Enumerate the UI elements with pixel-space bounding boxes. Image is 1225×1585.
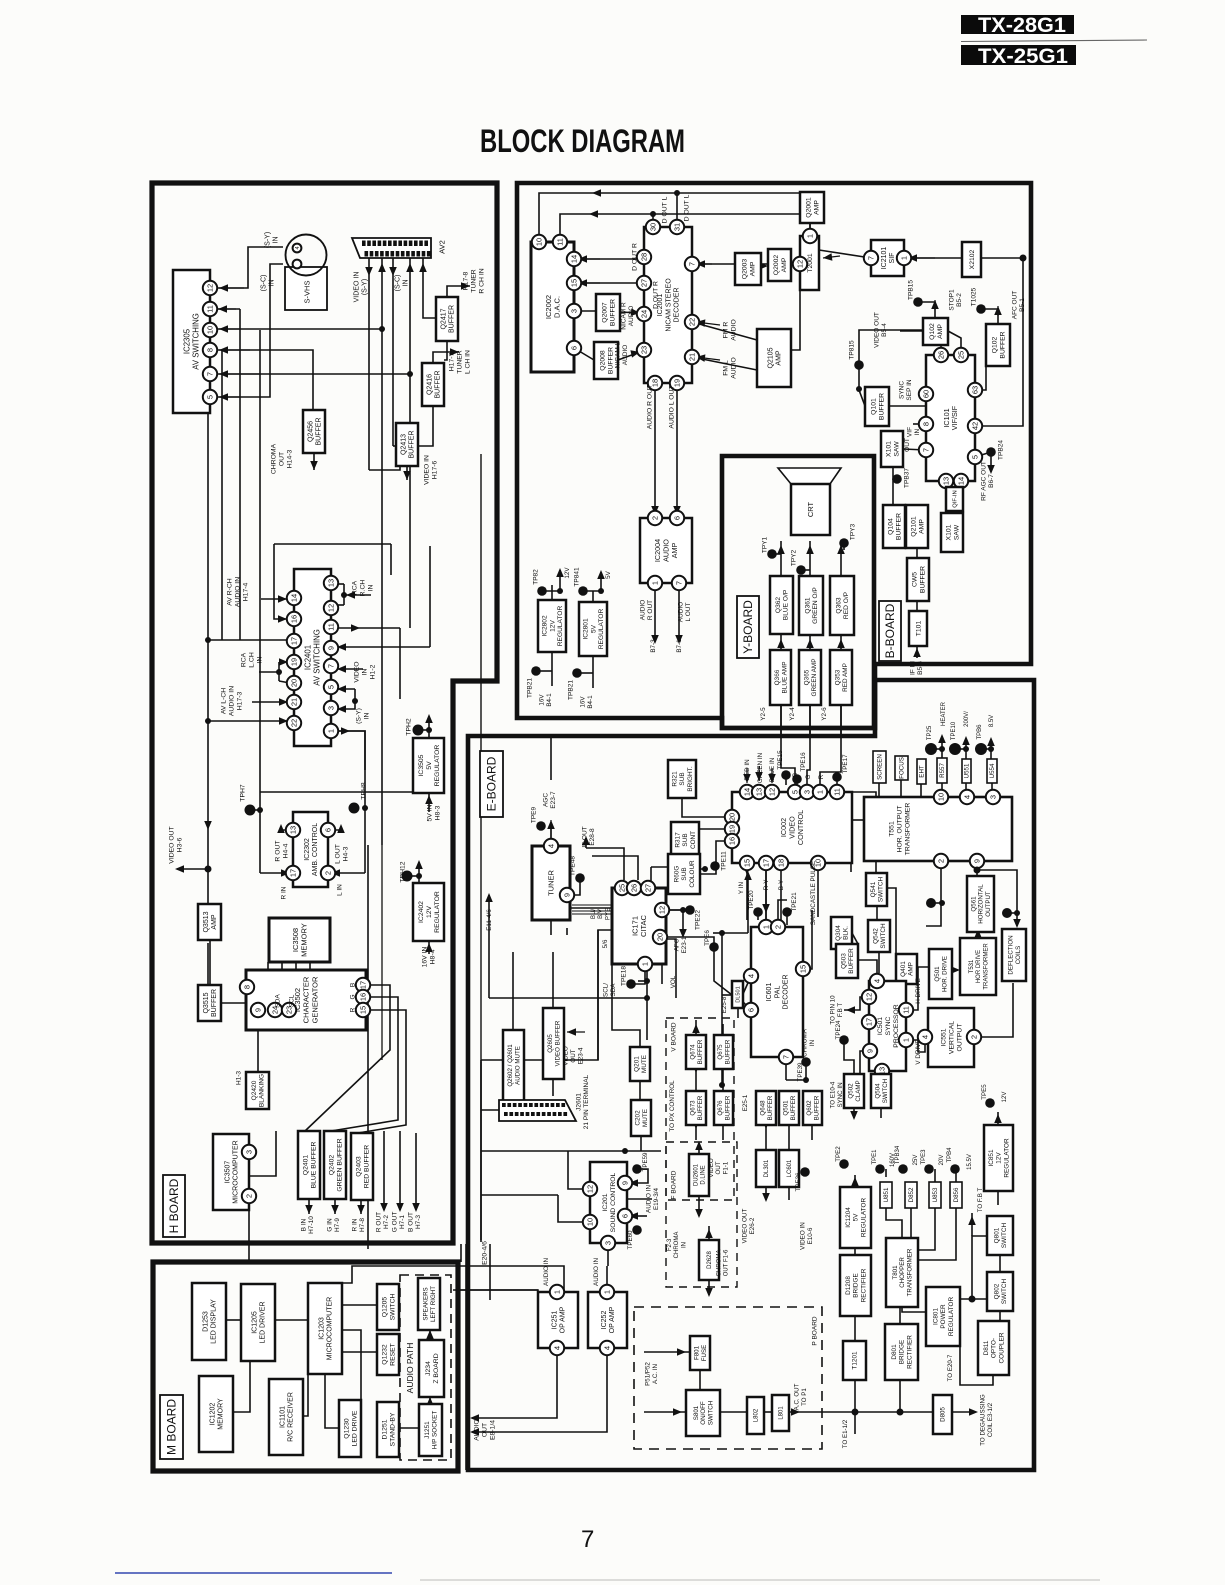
svg-text:BUFFER: BUFFER — [813, 1095, 820, 1120]
svg-text:B6-7: B6-7 — [988, 474, 995, 488]
svg-text:9: 9 — [563, 893, 572, 897]
svg-text:BUFFER: BUFFER — [211, 989, 218, 1017]
svg-text:TO PX CONTROL: TO PX CONTROL — [669, 1080, 676, 1132]
svg-text:9: 9 — [973, 859, 982, 863]
svg-text:H7-8: H7-8 — [359, 1218, 366, 1232]
svg-text:L IN: L IN — [336, 884, 343, 896]
svg-text:TPE60: TPE60 — [627, 1230, 634, 1249]
svg-text:Q674: Q674 — [690, 1044, 697, 1060]
svg-text:IC601: IC601 — [766, 983, 773, 1002]
svg-text:12: 12 — [768, 788, 777, 796]
svg-text:BUFFER: BUFFER — [409, 431, 416, 459]
svg-text:AMP: AMP — [918, 519, 925, 534]
svg-text:TPE10: TPE10 — [951, 721, 957, 740]
svg-text:IN: IN — [367, 585, 374, 592]
svg-text:B5-2: B5-2 — [956, 293, 963, 307]
svg-text:B5-1: B5-1 — [1019, 298, 1026, 312]
svg-text:13: 13 — [942, 477, 951, 485]
svg-text:IC3507: IC3507 — [224, 1161, 231, 1184]
svg-text:20: 20 — [656, 933, 665, 941]
svg-text:Q2416: Q2416 — [426, 374, 433, 395]
svg-text:SOUND CONTROL: SOUND CONTROL — [610, 1172, 617, 1232]
svg-text:R IN: R IN — [351, 1218, 358, 1231]
svg-text:3: 3 — [604, 1241, 613, 1245]
svg-text:OUT: OUT — [715, 1161, 722, 1174]
svg-text:12V: 12V — [1002, 1092, 1008, 1103]
svg-text:1: 1 — [651, 581, 660, 585]
svg-text:16V: 16V — [539, 694, 546, 706]
svg-text:BUFFER: BUFFER — [449, 305, 456, 333]
svg-text:TPB37: TPB37 — [903, 468, 910, 488]
svg-text:PYE: PYE — [605, 908, 611, 920]
svg-text:(S-C): (S-C) — [260, 275, 267, 292]
svg-text:Y2-6: Y2-6 — [821, 707, 828, 721]
svg-text:10: 10 — [206, 326, 215, 334]
svg-text:D2628: D2628 — [707, 1251, 713, 1269]
svg-text:AUDIO: AUDIO — [730, 319, 737, 341]
svg-text:7: 7 — [867, 256, 876, 260]
svg-text:CHROMA: CHROMA — [717, 1250, 723, 1277]
svg-text:1: 1 — [327, 729, 336, 733]
svg-text:U851: U851 — [883, 1187, 890, 1202]
svg-text:TP82: TP82 — [532, 569, 539, 585]
svg-text:DEFLECTION: DEFLECTION — [1008, 935, 1015, 974]
svg-text:AUDIO: AUDIO — [677, 602, 684, 623]
svg-text:Q561: Q561 — [970, 896, 977, 912]
svg-text:B/V: B/V — [598, 909, 604, 919]
svg-text:H3-6: H3-6 — [176, 837, 183, 852]
svg-text:Q676: Q676 — [717, 1100, 724, 1116]
svg-text:Q2002: Q2002 — [773, 255, 780, 276]
svg-text:LED DRIVE: LED DRIVE — [351, 1410, 358, 1446]
svg-text:BUFFER: BUFFER — [724, 1039, 731, 1064]
svg-text:12: 12 — [327, 604, 336, 612]
svg-text:TPE36: TPE36 — [795, 1172, 802, 1191]
svg-text:RECTIFIER: RECTIFIER — [860, 1268, 867, 1302]
svg-text:28: 28 — [640, 253, 649, 261]
svg-text:Q353: Q353 — [834, 669, 841, 685]
svg-text:SYNC: SYNC — [885, 1016, 892, 1035]
svg-text:GREEN AMP: GREEN AMP — [811, 659, 818, 697]
svg-text:Q2001: Q2001 — [805, 197, 812, 218]
svg-text:IC2302: IC2302 — [304, 838, 311, 861]
svg-text:7: 7 — [688, 262, 697, 266]
svg-text:F1-1: F1-1 — [723, 1161, 730, 1174]
svg-text:X2102: X2102 — [969, 249, 976, 269]
svg-text:TRANSFORMER: TRANSFORMER — [983, 943, 989, 990]
svg-text:R557: R557 — [939, 763, 946, 778]
svg-text:OUT: OUT — [570, 1049, 577, 1062]
svg-text:L.CH: L.CH — [248, 652, 255, 668]
svg-text:SCL/: SCL/ — [603, 983, 610, 997]
svg-text:BLUE IN: BLUE IN — [769, 757, 776, 782]
svg-text:TPE9: TPE9 — [530, 806, 537, 823]
svg-text:H17-8: H17-8 — [462, 272, 469, 291]
svg-text:13: 13 — [289, 826, 298, 834]
svg-text:IC2802: IC2802 — [542, 615, 549, 637]
svg-text:B5-4: B5-4 — [881, 323, 888, 337]
svg-text:B-BOARD: B-BOARD — [883, 603, 897, 658]
svg-text:T101: T101 — [915, 621, 922, 637]
svg-text:20: 20 — [290, 679, 299, 687]
svg-text:CHROMA: CHROMA — [674, 1232, 680, 1259]
svg-text:TPE24: TPE24 — [835, 1020, 842, 1039]
svg-text:7: 7 — [581, 1526, 594, 1553]
svg-text:6: 6 — [621, 1214, 630, 1218]
svg-text:TP841: TP841 — [573, 567, 580, 587]
svg-text:12V: 12V — [564, 567, 571, 579]
svg-text:Q3515: Q3515 — [203, 992, 210, 1013]
svg-text:Q104: Q104 — [887, 518, 894, 535]
svg-text:MUTE: MUTE — [641, 1055, 648, 1073]
svg-text:X101: X101 — [945, 524, 952, 540]
svg-text:9: 9 — [621, 1181, 630, 1185]
svg-text:TRANSFORMER: TRANSFORMER — [907, 1248, 914, 1296]
svg-text:DECODER: DECODER — [674, 287, 681, 322]
svg-text:C202: C202 — [634, 1110, 641, 1126]
svg-text:24: 24 — [640, 310, 649, 318]
svg-text:TPE21: TPE21 — [791, 892, 798, 912]
svg-text:L OUT: L OUT — [685, 603, 692, 622]
svg-text:CHOPPER: CHOPPER — [899, 1257, 906, 1288]
svg-text:IC1101: IC1101 — [279, 1406, 286, 1428]
svg-text:T1025: T1025 — [970, 287, 977, 306]
svg-text:4: 4 — [747, 974, 756, 978]
svg-text:B: B — [792, 773, 799, 777]
svg-text:GREEN BUFFER: GREEN BUFFER — [336, 1138, 343, 1191]
svg-text:H1-2: H1-2 — [369, 664, 376, 679]
svg-text:18: 18 — [777, 859, 786, 867]
svg-text:DL301: DL301 — [764, 1159, 770, 1177]
svg-text:B: B — [349, 983, 356, 987]
svg-text:BUFFER: BUFFER — [790, 1095, 797, 1120]
svg-text:J1251: J1251 — [424, 1421, 431, 1439]
svg-text:A.C. OUT: A.C. OUT — [794, 1383, 801, 1410]
svg-text:VIDEO IN: VIDEO IN — [353, 272, 360, 303]
svg-text:BUFFER: BUFFER — [895, 513, 902, 540]
svg-text:26: 26 — [630, 884, 639, 892]
svg-text:R-Y: R-Y — [763, 879, 770, 891]
svg-text:IN: IN — [363, 713, 370, 720]
svg-text:6: 6 — [673, 516, 682, 520]
svg-text:SIF: SIF — [889, 253, 896, 264]
svg-text:9: 9 — [327, 646, 336, 650]
svg-text:CHROMA: CHROMA — [270, 443, 277, 474]
svg-text:Q2007: Q2007 — [601, 302, 608, 323]
svg-text:15: 15 — [359, 1006, 368, 1014]
svg-text:F BOARD: F BOARD — [670, 1170, 677, 1199]
svg-text:12: 12 — [586, 1185, 595, 1193]
svg-text:TP25: TP25 — [927, 725, 933, 740]
svg-text:SDA: SDA — [274, 994, 281, 1008]
svg-text:17: 17 — [290, 637, 299, 645]
svg-text:FUSE: FUSE — [701, 1345, 708, 1362]
svg-text:IN: IN — [914, 428, 921, 435]
svg-text:15.5V: 15.5V — [967, 1154, 973, 1170]
svg-text:MEMORY: MEMORY — [218, 1398, 225, 1430]
svg-text:R IN: R IN — [280, 886, 287, 899]
svg-text:BUFFER: BUFFER — [767, 1095, 774, 1120]
svg-text:POWER: POWER — [940, 1304, 947, 1329]
svg-text:F801: F801 — [694, 1345, 701, 1360]
svg-text:BUFFER: BUFFER — [316, 418, 323, 446]
svg-text:NICAM L: NICAM L — [614, 341, 621, 368]
svg-text:OPTO-: OPTO- — [991, 1338, 998, 1358]
svg-text:Q102: Q102 — [929, 323, 936, 340]
svg-text:7: 7 — [327, 664, 336, 668]
svg-text:E23-7: E23-7 — [550, 791, 557, 809]
svg-text:GREEN O/P: GREEN O/P — [812, 587, 819, 624]
svg-text:IC551: IC551 — [940, 1028, 947, 1046]
svg-text:MEMORY: MEMORY — [300, 923, 309, 957]
svg-text:OUT F1-6: OUT F1-6 — [724, 1249, 730, 1276]
svg-text:IC501: IC501 — [877, 1017, 884, 1035]
svg-text:Q501: Q501 — [783, 1100, 790, 1116]
svg-text:5: 5 — [327, 685, 336, 689]
svg-text:TUNER: TUNER — [456, 350, 463, 374]
svg-text:B IN: B IN — [300, 1218, 307, 1231]
svg-text:Q502: Q502 — [848, 1083, 855, 1099]
svg-text:REGULATOR: REGULATOR — [948, 1297, 955, 1337]
svg-text:TPB21: TPB21 — [567, 680, 574, 700]
svg-text:SYNC IN: SYNC IN — [837, 1082, 844, 1107]
svg-text:Q3513: Q3513 — [203, 911, 210, 932]
svg-text:T551: T551 — [888, 821, 895, 837]
svg-text:R.CH: R.CH — [359, 580, 366, 597]
svg-text:SAW: SAW — [953, 524, 960, 540]
svg-text:BLUE AMP: BLUE AMP — [782, 662, 789, 694]
svg-text:IC201: IC201 — [602, 1193, 609, 1211]
svg-text:H7-1: H7-1 — [399, 1215, 406, 1229]
svg-text:U554: U554 — [989, 763, 996, 778]
svg-text:AUDIO IN: AUDIO IN — [646, 1185, 653, 1213]
svg-text:3: 3 — [327, 706, 336, 710]
svg-text:11: 11 — [556, 238, 565, 246]
svg-text:31: 31 — [673, 223, 682, 231]
svg-text:Q802: Q802 — [993, 1283, 1000, 1299]
svg-text:G: G — [805, 774, 812, 779]
svg-text:CHARACTER: CHARACTER — [302, 976, 311, 1023]
svg-text:4: 4 — [963, 795, 972, 799]
svg-text:H14-3: H14-3 — [286, 450, 293, 469]
svg-text:E25-8: E25-8 — [721, 996, 728, 1013]
svg-text:TX-25G1: TX-25G1 — [978, 44, 1068, 68]
svg-text:Q675: Q675 — [717, 1044, 724, 1060]
svg-text:10: 10 — [937, 793, 946, 801]
svg-text:17: 17 — [359, 981, 368, 989]
svg-text:TPE48: TPE48 — [569, 856, 576, 876]
svg-text:IF OUT: IF OUT — [581, 826, 588, 847]
svg-text:TPE17: TPE17 — [842, 754, 849, 774]
svg-text:COILS: COILS — [1015, 946, 1022, 965]
svg-text:21: 21 — [688, 353, 697, 361]
svg-text:D805: D805 — [940, 1407, 947, 1422]
svg-text:22: 22 — [688, 318, 697, 326]
svg-text:IC2101: IC2101 — [881, 247, 888, 270]
svg-text:22: 22 — [290, 719, 299, 727]
svg-text:42: 42 — [971, 422, 980, 430]
svg-text:H4-4: H4-4 — [282, 843, 289, 858]
svg-text:D OUT R: D OUT R — [652, 281, 659, 309]
svg-text:B5-6: B5-6 — [917, 661, 924, 675]
svg-text:H17-6: H17-6 — [431, 461, 438, 480]
svg-text:20V: 20V — [939, 1155, 945, 1166]
svg-text:16: 16 — [359, 993, 368, 1001]
svg-text:TPE39: TPE39 — [797, 1062, 804, 1081]
svg-text:L802: L802 — [754, 1408, 760, 1422]
svg-text:BLANKING: BLANKING — [259, 1074, 266, 1107]
svg-text:21: 21 — [290, 698, 299, 706]
svg-text:TO E1-1/2: TO E1-1/2 — [842, 1419, 849, 1448]
svg-text:5V IN: 5V IN — [426, 804, 433, 821]
svg-text:H8-3: H8-3 — [434, 805, 441, 820]
svg-text:5V: 5V — [853, 1213, 860, 1222]
svg-text:11: 11 — [327, 623, 336, 631]
svg-text:SWITCH: SWITCH — [878, 877, 885, 903]
svg-text:AMP: AMP — [908, 962, 915, 976]
svg-text:7: 7 — [206, 372, 215, 376]
svg-text:E10-6: E10-6 — [807, 1227, 814, 1244]
svg-text:1: 1 — [900, 256, 909, 260]
svg-text:IC3505: IC3505 — [418, 754, 425, 776]
svg-text:2: 2 — [774, 925, 783, 929]
svg-text:EHT: EHT — [919, 765, 926, 778]
svg-text:IN: IN — [681, 1242, 687, 1248]
svg-text:TO E10-4: TO E10-4 — [830, 1081, 837, 1108]
svg-text:VIF/SIF: VIF/SIF — [950, 405, 959, 430]
svg-text:P BOARD: P BOARD — [811, 1316, 818, 1345]
svg-text:AMP: AMP — [749, 261, 756, 276]
svg-text:BU/: BU/ — [591, 909, 597, 919]
svg-text:VIDEO OUT: VIDEO OUT — [873, 312, 880, 348]
svg-text:TPY2: TPY2 — [790, 549, 797, 566]
svg-text:AV SWITCHING: AV SWITCHING — [313, 629, 322, 686]
svg-text:VIDEO OUT: VIDEO OUT — [168, 826, 175, 863]
svg-text:60: 60 — [922, 390, 931, 398]
svg-text:D811: D811 — [983, 1340, 990, 1355]
svg-text:AUDIO: AUDIO — [639, 600, 646, 621]
svg-text:5: 5 — [206, 395, 215, 399]
svg-text:TPE1: TPE1 — [872, 1149, 878, 1165]
svg-text:AFC OUT: AFC OUT — [1011, 291, 1018, 320]
svg-text:R: R — [818, 774, 825, 779]
svg-text:(S-C): (S-C) — [394, 275, 401, 292]
svg-text:25: 25 — [618, 884, 627, 892]
svg-text:OUT: OUT — [481, 1423, 488, 1437]
svg-text:AUDIO: AUDIO — [473, 1419, 480, 1441]
svg-text:4: 4 — [553, 1346, 562, 1350]
svg-text:HOR DRIVE: HOR DRIVE — [976, 950, 982, 983]
svg-text:25: 25 — [957, 351, 966, 359]
svg-text:STAND-BY: STAND-BY — [389, 1412, 396, 1446]
svg-text:H1-3: H1-3 — [235, 1071, 242, 1085]
svg-text:TUNER: TUNER — [470, 269, 477, 293]
svg-text:Q201: Q201 — [633, 1056, 640, 1072]
svg-text:Q304: Q304 — [835, 925, 842, 941]
svg-text:4: 4 — [873, 979, 882, 983]
svg-text:CHROMA: CHROMA — [802, 1028, 809, 1057]
svg-text:T801: T801 — [892, 1265, 899, 1280]
svg-text:DU2601: DU2601 — [694, 1163, 700, 1186]
svg-text:H7-9: H7-9 — [334, 1218, 341, 1232]
svg-text:IN: IN — [403, 280, 410, 287]
svg-text:MICROCOMPUTER: MICROCOMPUTER — [233, 1140, 240, 1203]
svg-text:Q2417: Q2417 — [440, 308, 447, 329]
svg-text:IF IN: IF IN — [909, 661, 916, 675]
svg-text:AUDIO PATH: AUDIO PATH — [405, 1343, 415, 1394]
svg-text:TPH8: TPH8 — [360, 782, 367, 800]
svg-text:15: 15 — [570, 279, 579, 287]
svg-text:BRIGHT.: BRIGHT. — [687, 766, 694, 791]
svg-text:TPH2: TPH2 — [405, 718, 412, 736]
svg-text:BUFFER: BUFFER — [607, 347, 614, 374]
svg-text:D.LINE: D.LINE — [701, 1165, 707, 1184]
svg-text:2: 2 — [970, 1035, 979, 1039]
svg-text:Q363: Q363 — [835, 597, 842, 613]
svg-text:16: 16 — [728, 837, 737, 845]
svg-text:5V: 5V — [426, 761, 433, 770]
svg-text:RED IN: RED IN — [744, 759, 751, 781]
svg-text:RECTIFIER: RECTIFIER — [906, 1335, 913, 1369]
svg-text:VIDEO: VIDEO — [708, 1158, 715, 1177]
svg-text:REGULATOR: REGULATOR — [860, 1198, 867, 1238]
svg-text:Q362: Q362 — [775, 597, 782, 613]
svg-text:SEP IN: SEP IN — [906, 379, 913, 401]
svg-text:Q2008: Q2008 — [599, 350, 606, 371]
svg-text:20: 20 — [728, 813, 737, 821]
svg-text:R60G: R60G — [674, 866, 681, 883]
svg-text:H DRIVE: H DRIVE — [915, 978, 922, 1004]
svg-text:SWITCH: SWITCH — [1001, 1223, 1008, 1249]
svg-text:H/P SOCKET: H/P SOCKET — [432, 1411, 439, 1450]
svg-text:NICAM STEREO: NICAM STEREO — [665, 278, 672, 332]
svg-text:AUDIO: AUDIO — [628, 306, 635, 327]
svg-text:T1201: T1201 — [852, 1351, 859, 1370]
svg-text:Z BOARD: Z BOARD — [433, 1353, 440, 1383]
svg-text:B7-3: B7-3 — [650, 639, 657, 653]
svg-text:3: 3 — [989, 795, 998, 799]
svg-text:D801: D801 — [891, 1344, 898, 1360]
svg-text:12: 12 — [796, 260, 805, 268]
svg-text:ON/OFF: ON/OFF — [700, 1401, 707, 1425]
svg-text:VIDEO IN: VIDEO IN — [423, 455, 430, 485]
svg-text:VERTICAL: VERTICAL — [948, 1021, 955, 1054]
svg-text:OUT: OUT — [278, 452, 285, 466]
svg-text:D856: D856 — [953, 1187, 960, 1202]
svg-text:IC2002: IC2002 — [544, 295, 553, 319]
svg-text:TO E20-7: TO E20-7 — [947, 1354, 954, 1381]
svg-text:IN: IN — [361, 669, 368, 676]
svg-text:BLUE O/P: BLUE O/P — [783, 589, 790, 620]
svg-text:BUFFER: BUFFER — [724, 1095, 731, 1120]
svg-text:FM L: FM L — [722, 360, 729, 376]
svg-text:5: 5 — [791, 790, 800, 794]
svg-text:COIL E3-1/2: COIL E3-1/2 — [987, 1402, 994, 1437]
svg-text:SANDCASTLE PULSE: SANDCASTLE PULSE — [810, 861, 817, 925]
svg-text:AUDIO R OUT: AUDIO R OUT — [646, 385, 653, 430]
svg-text:F.B T: F.B T — [837, 1003, 844, 1018]
svg-text:IC1203: IC1203 — [318, 1317, 325, 1340]
svg-text:11: 11 — [833, 788, 842, 796]
svg-text:19: 19 — [290, 658, 299, 666]
svg-text:H7-2: H7-2 — [383, 1215, 390, 1229]
svg-text:BUFFER: BUFFER — [697, 1095, 704, 1120]
svg-text:IC171: IC171 — [630, 916, 639, 936]
svg-text:GENERATOR: GENERATOR — [310, 976, 319, 1023]
svg-text:SYNC: SYNC — [898, 381, 905, 399]
svg-text:OP AMP: OP AMP — [609, 1306, 616, 1333]
svg-text:Q365: Q365 — [803, 669, 810, 685]
